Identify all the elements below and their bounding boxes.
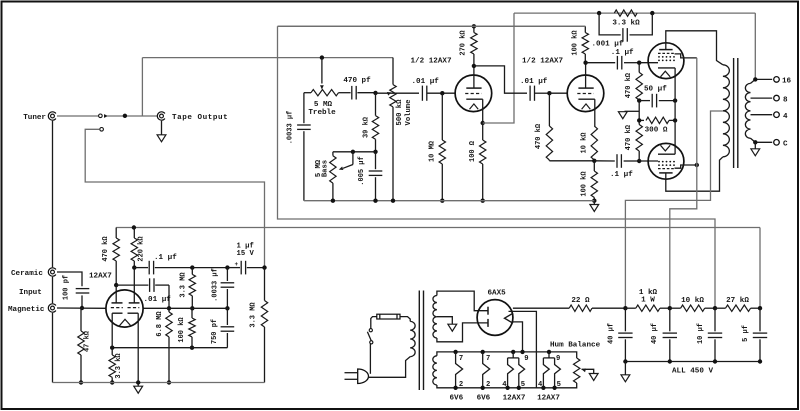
wire contact b to preamp output	[85, 129, 264, 267]
node B+ 1	[623, 306, 627, 310]
capacitor .1 uf upper grid	[586, 62, 616, 64]
node cathode 1	[481, 121, 485, 125]
wire cathode net mid	[638, 101, 640, 121]
node B+ 2	[668, 306, 672, 310]
tube V1 heater	[119, 319, 131, 326]
svg-text:Input: Input	[19, 289, 42, 297]
tube V5 cathode	[505, 313, 514, 323]
node eq b top	[190, 265, 194, 269]
terminal 16 ohm	[774, 77, 780, 83]
resistor 22 ohm	[569, 305, 592, 311]
capacitor 750 pf eq	[226, 308, 228, 325]
tube V4 output lower envelope	[648, 143, 684, 179]
svg-text:6V6: 6V6	[449, 394, 463, 402]
ground HV centre tap	[448, 324, 457, 331]
resistor 3.3 M ohm eq	[191, 268, 193, 275]
svg-text:Tape Output: Tape Output	[172, 114, 228, 122]
node ground bass	[373, 199, 377, 203]
resistor 300 ohm cathode	[639, 119, 644, 121]
wire tape jack to ground	[161, 121, 163, 135]
node 100ohm ground	[481, 199, 485, 203]
svg-text:6V6: 6V6	[477, 394, 491, 402]
svg-text:Ceramic: Ceramic	[11, 270, 43, 278]
switch S2 power lower contact	[370, 341, 373, 344]
svg-text:470 kΩ: 470 kΩ	[102, 236, 110, 262]
wire heater pin b	[513, 322, 523, 352]
wire B+ riser amp	[278, 26, 716, 308]
svg-text:470 kΩ: 470 kΩ	[625, 124, 633, 150]
ground tape output	[157, 135, 166, 142]
potentiometer 5 M ohm Treble	[304, 92, 311, 94]
wire cathode 1 down	[482, 99, 484, 123]
node plate 2	[583, 61, 587, 65]
transformer T1 heater winding	[433, 356, 437, 385]
node 270k top	[472, 24, 476, 28]
wire cathode 1 lead	[111, 313, 113, 348]
svg-text:3.3 MΩ: 3.3 MΩ	[250, 302, 258, 328]
wire grid 2 line	[143, 307, 228, 309]
svg-text:6AX5: 6AX5	[488, 289, 507, 297]
resistor 100 k ohm plate load 2	[582, 33, 588, 55]
tube V1 12AX7 preamp envelope	[106, 290, 143, 327]
node ground volume	[391, 199, 395, 203]
wire jack ground chain magnetic-bus	[52, 313, 54, 383]
capacitor .1 uf eq	[134, 267, 148, 269]
wire jack ground chain ceramic-magnetic	[52, 277, 54, 303]
svg-text:5: 5	[557, 381, 561, 389]
node 10M ground	[440, 199, 444, 203]
capacitor 50 uf cathode bypass	[639, 100, 650, 102]
svg-text:16: 16	[782, 78, 792, 86]
svg-text:.1 μf: .1 μf	[610, 171, 633, 179]
wire plate2 into tube	[133, 268, 135, 303]
svg-text:100 kΩ: 100 kΩ	[178, 317, 186, 343]
capacitor 5 uf filter 4	[759, 308, 761, 331]
node heater tie	[520, 350, 524, 354]
resistor 270 k ohm plate load	[473, 26, 475, 32]
svg-text:27 kΩ: 27 kΩ	[726, 297, 749, 305]
node 6.8M ground	[167, 380, 171, 384]
resistor 470 k ohm grid return	[548, 93, 550, 126]
resistor 3.3 M ohm output load	[264, 268, 266, 301]
tube V2b plate	[578, 87, 593, 89]
node coupling	[225, 265, 229, 269]
node phase splitter	[592, 159, 596, 163]
wire 470k to cathode node	[549, 160, 594, 162]
resistor 10 k ohm cathode 2	[591, 126, 597, 160]
tube V4 plate	[659, 172, 672, 174]
svg-text:1 W: 1 W	[641, 297, 655, 305]
potentiometer 500 k ohm Volume	[390, 85, 396, 107]
svg-text:220 kΩ: 220 kΩ	[138, 236, 146, 262]
svg-text:1/2 12AX7: 1/2 12AX7	[522, 57, 563, 65]
node treble wiper feed	[320, 55, 324, 59]
switch S1 contact b	[100, 128, 104, 132]
svg-text:6.8 MΩ: 6.8 MΩ	[156, 311, 164, 337]
svg-text:Tuner: Tuner	[23, 114, 46, 122]
resistor 470 k ohm plate load 1	[115, 228, 117, 239]
node screen line lower	[695, 163, 699, 167]
node plate 2	[132, 265, 136, 269]
node grid 2	[547, 91, 551, 95]
node plate 1	[114, 283, 118, 287]
wire primary centre tap to B+	[625, 111, 723, 308]
wire primary return to plug	[368, 357, 410, 378]
capacitor .01 uf coupling 1	[421, 86, 423, 101]
wire 8 tap	[751, 97, 773, 99]
svg-text:.1 μf: .1 μf	[154, 254, 177, 262]
resistor 6.8 M ohm	[168, 308, 170, 312]
svg-text:.001 μf: .001 μf	[592, 41, 624, 49]
svg-text:300 Ω: 300 Ω	[645, 127, 668, 135]
resistor 220 k ohm plate load 2	[132, 225, 136, 229]
svg-text:47 kΩ: 47 kΩ	[84, 330, 92, 352]
transformer T1 HV winding	[433, 296, 437, 339]
wire plug to switch	[369, 344, 371, 374]
svg-text:+: +	[235, 261, 239, 268]
svg-text:.005 μf: .005 μf	[358, 156, 366, 185]
capacitor .01 uf coupling 2	[529, 86, 531, 101]
svg-text:470 kΩ: 470 kΩ	[625, 72, 633, 98]
capacitor 10 uf filter 3	[714, 308, 716, 331]
ground cathode network	[625, 110, 640, 112]
wire cathode 2 lead to ground	[137, 313, 139, 382]
wire switch to tape output jack	[107, 115, 158, 117]
capacitor 40 uf filter 2	[669, 308, 671, 331]
resistor 470 k ohm lower grid leak	[638, 120, 640, 124]
tube V4 screen hook	[675, 165, 697, 168]
tube V2b grid	[577, 93, 593, 95]
wire jack ground chain tuner-ceramic	[52, 121, 54, 267]
node cathode net bottom	[637, 118, 641, 122]
resistor 10 M ohm grid leak	[441, 93, 443, 140]
resistor 100 k ohm eq	[191, 308, 193, 318]
node upper grid	[637, 61, 641, 65]
svg-text:12AX7: 12AX7	[89, 273, 112, 281]
tube V5 plate 1 bar	[487, 307, 489, 315]
wire HV centre tap	[437, 317, 452, 325]
capacitor 470 pf	[351, 86, 353, 100]
tube V1 grids	[111, 307, 123, 309]
resistor 100 ohm cathode	[482, 123, 484, 140]
wire plate1 into tube	[115, 285, 117, 303]
resistor 470 k ohm upper grid leak	[638, 63, 640, 73]
node feedback b	[650, 11, 654, 15]
svg-text:.01 μf: .01 μf	[520, 78, 548, 86]
svg-text:15 V: 15 V	[237, 250, 255, 258]
node cathode right bottom	[673, 118, 677, 122]
svg-text:3.3 MΩ: 3.3 MΩ	[179, 272, 187, 298]
svg-text:1/2 12AX7: 1/2 12AX7	[411, 57, 452, 65]
transformer T1 core	[418, 291, 420, 391]
switch S2 power upper contact	[369, 329, 372, 332]
tube V5 plate 2 bar	[487, 319, 489, 327]
tube V1 plate bars	[112, 302, 123, 304]
svg-text:100 kΩ: 100 kΩ	[572, 30, 580, 56]
node B+ 3	[713, 306, 717, 310]
heater 6V6 number 1	[453, 350, 457, 354]
node 47k ground	[79, 380, 83, 384]
wire preamp ground bus	[53, 382, 265, 384]
wire filter ground rail	[625, 361, 760, 363]
ground secondary common	[754, 142, 756, 149]
wire plate 1 to coupling	[474, 66, 527, 93]
node common tap	[753, 140, 757, 144]
svg-text:750 pf: 750 pf	[211, 319, 219, 344]
svg-text:500 kΩ: 500 kΩ	[396, 99, 404, 126]
wire upper grid into tube	[639, 62, 658, 64]
fuse F1	[377, 314, 400, 319]
svg-text:12AX7: 12AX7	[537, 394, 560, 402]
tube V2a plate	[466, 87, 481, 89]
node cathode right top	[673, 98, 677, 102]
wire B+ rail amp stages	[278, 25, 586, 27]
svg-text:5 MΩ: 5 MΩ	[314, 101, 333, 109]
node treble-volume	[373, 91, 377, 95]
potentiometer 5 M ohm Bass	[332, 152, 334, 156]
ground splitter	[593, 201, 595, 205]
svg-text:.01 μf: .01 μf	[144, 296, 172, 304]
svg-text:Bass: Bass	[322, 160, 330, 177]
svg-text:270 kΩ: 270 kΩ	[459, 30, 467, 56]
svg-text:7: 7	[486, 355, 490, 363]
capacitor .0033 uf eq	[226, 268, 228, 281]
wire B+ riser preamp	[759, 228, 761, 309]
heater 6V6 number 2	[481, 350, 485, 354]
svg-text:470 kΩ: 470 kΩ	[535, 123, 543, 149]
wire preamp B+ rail	[116, 227, 760, 229]
switch S2 lever	[367, 332, 371, 341]
potentiometer hum balance	[574, 358, 580, 383]
terminal C common	[774, 140, 780, 146]
node plate 1	[472, 64, 476, 68]
svg-text:10 kΩ: 10 kΩ	[681, 297, 704, 305]
svg-text:7: 7	[459, 355, 463, 363]
node magnetic input	[80, 306, 84, 310]
node eq c	[225, 306, 229, 310]
capacitor .01 uf eq	[116, 284, 148, 286]
capacitor .001 uf feedback	[599, 13, 621, 35]
wire node down from tone feed	[141, 58, 143, 116]
junction dot selector node	[123, 114, 127, 118]
node 3.3k ground	[110, 380, 114, 384]
svg-text:40 μf: 40 μf	[651, 323, 659, 344]
wire feedback to cathode	[483, 13, 514, 123]
svg-text:9: 9	[556, 355, 560, 363]
tube V1 cathodes	[112, 312, 122, 314]
wire 100pf to magnetic line	[81, 295, 83, 308]
wire 22 ohm to node1	[592, 307, 625, 309]
svg-text:3.3 kΩ: 3.3 kΩ	[115, 353, 123, 379]
transformer T2 core	[733, 58, 735, 168]
svg-text:Hum Balance: Hum Balance	[550, 341, 601, 349]
potentiometer 5 M ohm Bass wiper	[352, 152, 354, 165]
wire HV bottom to plate 2	[437, 323, 488, 342]
node preamp out	[262, 265, 266, 269]
capacitor .0033 uf tone	[303, 93, 305, 124]
node splitter ground	[592, 199, 596, 203]
tube V2a grid	[465, 93, 481, 95]
transformer T2 primary winding	[723, 65, 729, 157]
hum balance wiper	[581, 367, 586, 372]
tube V2a cathode	[466, 98, 482, 100]
wire tuner jack to switch contact	[57, 115, 98, 117]
wire ceramic jack to 100pf	[57, 272, 82, 286]
transformer T1 primary winding	[410, 321, 415, 356]
tube V5 6AX5 envelope	[477, 300, 513, 336]
svg-text:100 pf: 100 pf	[63, 275, 71, 300]
wire grid 2 into tube	[549, 92, 567, 94]
tube V3 screen hook	[675, 54, 697, 58]
svg-text:ALL 450 V: ALL 450 V	[672, 367, 713, 375]
wire 4 tap	[751, 114, 773, 116]
svg-text:.0033 μf: .0033 μf	[211, 268, 219, 302]
svg-text:8: 8	[783, 96, 788, 104]
node eq b bottom	[190, 306, 194, 310]
tube V3 plate	[659, 49, 672, 51]
node B+ 4	[758, 306, 762, 310]
tube V4 cathode	[658, 153, 675, 155]
wire heater pin a	[509, 311, 537, 387]
resistor 27 k ohm filter	[726, 305, 751, 311]
svg-text:50 μf: 50 μf	[644, 86, 667, 94]
svg-text:3.3 kΩ: 3.3 kΩ	[612, 20, 640, 28]
node cathode net top	[637, 98, 641, 102]
wire cathode line	[112, 347, 227, 349]
svg-text:2: 2	[459, 381, 463, 389]
switch S1 pole arrow	[104, 114, 108, 118]
terminal 8 ohm	[774, 95, 780, 101]
svg-text:12AX7: 12AX7	[503, 394, 526, 402]
node cathode 1	[110, 346, 114, 350]
node lower grid	[637, 159, 641, 163]
wire magnetic jack to grid	[57, 307, 106, 309]
wire fuse to primary	[400, 317, 410, 322]
wire cathode output	[513, 307, 569, 309]
node bass wiper tie	[351, 150, 355, 154]
wire amp ground bus	[304, 200, 594, 202]
tube V3 grid rows	[658, 52, 675, 54]
wire heater loop	[437, 352, 577, 358]
resistor 39 k ohm	[375, 93, 377, 116]
node 100k cathode line	[190, 346, 194, 350]
svg-text:5 μf: 5 μf	[742, 325, 750, 342]
svg-text:.01 μf: .01 μf	[412, 78, 440, 86]
node bass top	[373, 150, 377, 154]
resistor 3.3 k ohm feedback	[614, 10, 637, 16]
plug AC mains	[358, 369, 369, 384]
svg-text:5: 5	[521, 381, 525, 389]
capacitor 40 uf filter 1	[624, 308, 626, 331]
svg-text:40 μf: 40 μf	[607, 323, 615, 344]
wire C tap	[751, 138, 773, 142]
wire cathodes tie	[674, 68, 676, 154]
svg-text:Volume: Volume	[405, 100, 413, 126]
capacitor 100 pf	[76, 288, 90, 290]
tube V3 output upper envelope	[648, 43, 684, 79]
capacitor .1 uf lower grid	[594, 160, 615, 162]
heater 12AX7 number 1	[511, 350, 515, 354]
input jack J2 Ceramic	[51, 270, 55, 274]
wire cathode 2 down	[594, 99, 596, 126]
tube V2b cathode	[578, 98, 594, 100]
svg-text:4: 4	[502, 381, 507, 389]
wire V4 plate to transformer	[666, 157, 723, 191]
resistor 47 k ohm	[80, 308, 82, 331]
wire lower grid into tube	[639, 160, 658, 162]
wire feedback top line	[514, 12, 755, 14]
input jack J3 Magnetic	[51, 306, 55, 310]
wire screen supply line	[670, 58, 697, 308]
svg-text:10 MΩ: 10 MΩ	[429, 140, 437, 162]
node ground .0033	[331, 199, 335, 203]
wire volume top feed	[392, 58, 394, 85]
svg-text:9: 9	[524, 355, 528, 363]
svg-text:22 Ω: 22 Ω	[571, 297, 590, 305]
switch S1 contact a	[99, 114, 103, 118]
ground filter rail	[624, 362, 626, 375]
node eq a	[167, 306, 171, 310]
resistor 3.3 k ohm cathode	[109, 355, 115, 378]
svg-text:C: C	[783, 141, 788, 149]
svg-text:4: 4	[783, 113, 788, 121]
terminal 4 ohm	[774, 112, 780, 118]
output jack J4 Tape Output	[160, 114, 164, 118]
svg-text:10 kΩ: 10 kΩ	[580, 132, 588, 154]
svg-text:Magnetic: Magnetic	[8, 306, 45, 314]
svg-text:39 kΩ: 39 kΩ	[362, 116, 370, 138]
svg-text:10 μf: 10 μf	[697, 323, 705, 344]
resistor 100 k ohm splitter	[593, 161, 595, 171]
wire V3 plate to transformer	[666, 31, 723, 65]
tube V2a 1/2 12AX7 envelope	[455, 75, 492, 112]
svg-text:.0033 μf: .0033 μf	[287, 111, 295, 145]
wire eq output node	[192, 267, 227, 269]
capacitor 1 uf 15 V electrolytic	[227, 267, 240, 269]
wire stage B+ rail	[278, 25, 586, 27]
svg-text:100 Ω: 100 Ω	[469, 140, 477, 162]
wire HV top to plate 1	[437, 291, 488, 311]
wire switch to fuse	[371, 317, 377, 329]
potentiometer 5 M treble wiper	[321, 58, 323, 84]
wire selector to tone network	[142, 57, 393, 59]
tube V3 cathode	[658, 67, 675, 69]
resistor 10 k ohm filter	[681, 305, 705, 311]
wire volume wiper to grid	[376, 92, 420, 94]
ground preamp bus	[137, 383, 139, 387]
resistor 1 k ohm 1 W	[636, 305, 660, 311]
tube V2b 1/2 12AX7 envelope	[567, 75, 604, 112]
svg-text:2: 2	[486, 381, 490, 389]
input jack J1 Tuner	[51, 114, 55, 118]
wire secondary top to 16 tap	[751, 79, 773, 83]
wire bass network top	[333, 151, 376, 153]
transformer T2 secondary winding	[745, 83, 750, 138]
svg-text:4: 4	[538, 381, 543, 389]
node feedback a	[597, 11, 601, 15]
capacitor .005 uf	[375, 152, 377, 169]
svg-text:100 kΩ: 100 kΩ	[580, 171, 588, 197]
svg-text:Treble: Treble	[308, 109, 336, 117]
svg-text:470 pf: 470 pf	[343, 77, 371, 85]
ground hum balance	[589, 374, 598, 381]
node grid 1	[440, 91, 444, 95]
svg-text:.1 μf: .1 μf	[611, 49, 634, 57]
wire feedback to output tap	[754, 13, 756, 79]
tube V4 grid rows	[658, 161, 660, 163]
heater 12AX7 number 2	[547, 350, 551, 354]
node feedback tap	[753, 77, 757, 81]
